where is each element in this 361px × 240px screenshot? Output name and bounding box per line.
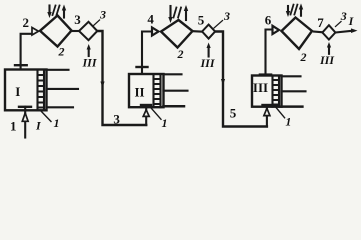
- feed arrow shaft vessel III: [266, 106, 268, 127]
- vapor flange vessel II: [137, 66, 148, 68]
- heating chamber 1 ladder rails: [38, 70, 45, 111]
- svg-text:2: 2: [300, 50, 307, 64]
- leader to italic 3 (unit3): [336, 22, 342, 27]
- svg-text:3: 3: [223, 9, 230, 23]
- svg-text:6: 6: [265, 13, 272, 28]
- vapor up arrow diamond 4: [185, 12, 187, 21]
- svg-text:4: 4: [147, 12, 154, 27]
- svg-text:I: I: [348, 14, 355, 28]
- svg-text:2: 2: [23, 15, 30, 30]
- down arrowhead pipe 2: [221, 79, 225, 85]
- leader to italic 3 (unit1): [93, 20, 100, 26]
- junction line diamond 4 to flash 3: [194, 30, 203, 32]
- water arrow III unit 2: [208, 48, 210, 57]
- leader to italic 3 (unit2): [214, 21, 223, 29]
- steam pipe top arm vessel I: [47, 69, 69, 71]
- junction line diamond 2 to flash 3: [72, 30, 79, 32]
- evaporator vessel I body: [5, 70, 47, 111]
- junction line diamond 6 to flash 7: [314, 30, 322, 33]
- svg-text:1: 1: [285, 115, 291, 129]
- outlet line to vacuum: [335, 31, 352, 33]
- vapor pipe vessel III to valve: [266, 30, 273, 76]
- svg-text:1: 1: [54, 116, 60, 130]
- feed arrow shaft vessel I: [24, 107, 26, 138]
- svg-text:3: 3: [340, 9, 347, 23]
- barometric pipe unit 1: [97, 31, 146, 125]
- svg-text:5: 5: [198, 13, 205, 28]
- feed arrowhead vessel I: [22, 113, 28, 121]
- vapor up arrow diamond 2: [63, 10, 65, 18]
- evaporator vessel III body: [252, 76, 282, 107]
- svg-text:3: 3: [99, 8, 106, 22]
- leader to italic 1 (vessel III): [276, 107, 285, 118]
- heating chamber 3 rungs: [273, 80, 280, 105]
- evaporator vessel II body: [129, 74, 164, 107]
- flash chamber diamond 3: [79, 22, 97, 40]
- vapor flange vessel III: [260, 73, 271, 76]
- valve 2 triangle: [32, 28, 39, 36]
- svg-text:5: 5: [230, 106, 237, 121]
- heating chamber 1 rungs: [38, 75, 45, 108]
- vapor flange vessel I: [15, 64, 27, 66]
- valve 4 triangle: [152, 28, 159, 36]
- feed flange vessel III: [263, 104, 271, 106]
- svg-text:III: III: [319, 53, 335, 67]
- heat exchanger diamond 2: [40, 16, 72, 47]
- steam down arrow diamond 2: [48, 6, 50, 13]
- feed arrowhead vessel II: [143, 110, 149, 117]
- vapor pipe vessel I to valve: [21, 34, 32, 70]
- vapor up arrow diamond 6: [300, 10, 302, 16]
- feed flange inside vessel I: [19, 106, 31, 108]
- steam down arrow diamond 6: [287, 6, 289, 12]
- condensate arm vessel II: [164, 105, 185, 108]
- barometric pipe unit 2: [215, 32, 267, 127]
- down arrowhead pipe 1: [100, 82, 104, 88]
- heat exchanger diamond 6: [282, 18, 313, 50]
- condensate arm vessel I: [47, 106, 74, 108]
- middle arm vessel III: [282, 90, 306, 92]
- feed arrowhead vessel III: [264, 108, 270, 115]
- svg-text:I: I: [35, 119, 42, 133]
- middle arm vessel II: [164, 90, 188, 92]
- label II slashes diamond 2: [53, 6, 60, 16]
- middle arm vessel I: [47, 88, 79, 90]
- label II slashes diamond 4: [174, 8, 182, 18]
- svg-text:2: 2: [177, 47, 184, 61]
- svg-text:1: 1: [162, 116, 168, 130]
- svg-text:II: II: [134, 85, 144, 100]
- water arrow III unit 3: [328, 48, 330, 54]
- feed arrow shaft vessel II: [145, 106, 147, 126]
- condensate arm vessel III: [282, 105, 303, 108]
- heating chamber 2 ladder rails: [154, 74, 161, 107]
- steam pipe top arm vessel II: [164, 73, 182, 75]
- heat exchanger diamond 4: [161, 20, 193, 48]
- flash chamber diamond 7: [322, 25, 335, 39]
- vapor pipe vessel II to valve: [142, 32, 152, 75]
- valve 6 triangle: [273, 26, 280, 34]
- flash chamber diamond 3 (unit2): [202, 25, 215, 39]
- feed flange vessel II: [141, 104, 151, 106]
- svg-text:3: 3: [74, 12, 81, 27]
- heating chamber 2 rungs: [154, 79, 161, 104]
- steam down arrow diamond 4: [169, 6, 171, 17]
- svg-text:2: 2: [58, 45, 65, 59]
- svg-text:3: 3: [113, 112, 120, 127]
- leader to italic 1 (vessel I): [40, 110, 51, 122]
- svg-text:III: III: [253, 80, 268, 95]
- leader to italic 1 (vessel II): [151, 107, 161, 119]
- heating chamber 3 ladder rails: [273, 76, 280, 107]
- svg-text:I: I: [15, 84, 20, 99]
- label II slashes diamond 6: [291, 5, 298, 15]
- steam pipe top arm vessel III: [282, 75, 301, 77]
- water arrow III unit 1: [88, 49, 90, 56]
- outlet arrowhead: [351, 28, 358, 33]
- svg-text:1: 1: [10, 119, 17, 134]
- svg-text:7: 7: [317, 15, 324, 30]
- svg-text:III: III: [81, 56, 97, 70]
- svg-text:III: III: [199, 56, 215, 70]
